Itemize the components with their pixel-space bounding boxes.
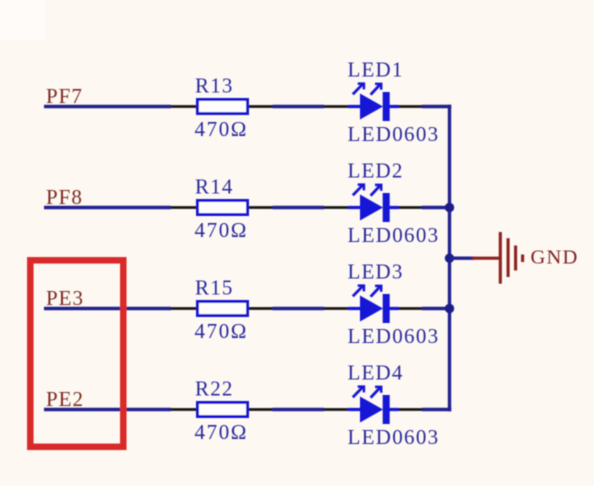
svg-text:470Ω: 470Ω: [195, 117, 249, 141]
svg-text:LED1: LED1: [348, 58, 404, 82]
svg-text:PF7: PF7: [46, 84, 83, 108]
svg-text:R13: R13: [195, 74, 234, 98]
svg-text:LED0603: LED0603: [348, 122, 440, 146]
svg-text:LED0603: LED0603: [348, 425, 440, 449]
svg-text:LED2: LED2: [348, 159, 404, 183]
svg-text:R14: R14: [195, 175, 234, 199]
svg-text:LED0603: LED0603: [348, 324, 440, 348]
svg-text:LED0603: LED0603: [348, 223, 440, 247]
svg-text:PE2: PE2: [46, 387, 84, 411]
svg-text:LED3: LED3: [348, 260, 404, 284]
svg-text:PF8: PF8: [46, 185, 83, 209]
svg-text:R15: R15: [195, 276, 234, 300]
svg-text:GND: GND: [531, 247, 579, 269]
svg-text:R22: R22: [195, 377, 234, 401]
svg-text:470Ω: 470Ω: [195, 319, 249, 343]
svg-text:470Ω: 470Ω: [195, 218, 249, 242]
svg-text:LED4: LED4: [348, 361, 404, 385]
svg-text:PE3: PE3: [46, 286, 84, 310]
svg-text:470Ω: 470Ω: [195, 420, 249, 444]
